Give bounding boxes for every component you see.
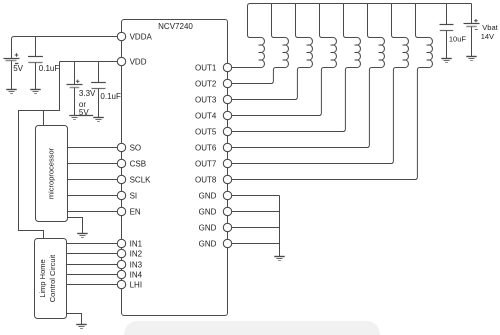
- svg-text:GND: GND: [199, 239, 217, 248]
- wire bus riser to coil L8: [416, 4, 428, 38]
- wire microprocessor to SI: [68, 195, 118, 197]
- relay coil L1: [260, 37, 265, 67]
- ground (limp home): [76, 325, 86, 329]
- svg-text:GND: GND: [199, 223, 217, 232]
- wire VDDA rail: [12, 37, 118, 59]
- capacitor C3 10uF: [440, 4, 454, 59]
- ground (below C2): [93, 118, 103, 122]
- svg-text:OUT7: OUT7: [195, 159, 217, 168]
- wire GND net vertical: [279, 196, 281, 257]
- wire bus riser to coil L7: [392, 4, 404, 38]
- pin OUT2: [195, 79, 232, 88]
- svg-text:IN4: IN4: [130, 270, 143, 279]
- ground (below 3.3V battery, wide top bar): [69, 116, 93, 120]
- wire microprocessor to CSB: [68, 163, 118, 165]
- wire bus riser to coil L3: [296, 4, 308, 38]
- svg-text:OUT3: OUT3: [195, 95, 217, 104]
- Limp Home Control Circuit box: [35, 239, 67, 319]
- svg-text:CSB: CSB: [130, 159, 146, 168]
- ground (GND net): [274, 257, 284, 261]
- svg-text:SI: SI: [130, 191, 138, 200]
- pin SCLK: [117, 175, 151, 184]
- svg-text:NCV7240: NCV7240: [158, 22, 193, 31]
- capacitor C1 0.1uF: [28, 37, 43, 90]
- wire Limp Home to IN3: [67, 264, 118, 266]
- wire GND pin 1 to net: [232, 195, 280, 197]
- relay coil L5: [356, 37, 361, 67]
- pin OUT1: [195, 63, 232, 72]
- svg-text:OUT4: OUT4: [195, 111, 217, 120]
- wire bus riser to coil L1: [248, 4, 260, 38]
- pin OUT8: [195, 175, 232, 184]
- svg-text:OUT8: OUT8: [195, 175, 217, 184]
- wire GND pin 4 to net: [232, 243, 280, 245]
- svg-text:10uF: 10uF: [449, 35, 467, 44]
- wire coil L3 to OUT3: [232, 68, 308, 100]
- ground (microprocessor): [77, 234, 87, 238]
- ground (below 10uF): [441, 59, 451, 63]
- capacitor C2 0.1uF: [91, 62, 106, 118]
- wire coil L8 to OUT8: [232, 68, 428, 180]
- wire microprocessor ground stub: [68, 218, 83, 234]
- pin OUT3: [195, 95, 232, 104]
- svg-text:OUT5: OUT5: [195, 127, 217, 136]
- svg-text:OUT6: OUT6: [195, 143, 217, 152]
- wire microprocessor to SCLK: [68, 179, 118, 181]
- wire coil L5 to OUT5: [232, 68, 356, 132]
- wire bus riser to coil L6: [368, 4, 380, 38]
- wire Limp Home to IN1: [67, 243, 118, 245]
- labels Vbat 14V: [481, 23, 499, 41]
- battery B2 3.3V/5V: [67, 62, 83, 116]
- relay coil L7: [404, 37, 409, 67]
- wire Limp Home to IN4: [67, 274, 118, 276]
- IC U1 NCV7240 box: [122, 20, 228, 316]
- relay coil L4: [332, 37, 337, 67]
- wire Vbat top bus: [250, 3, 472, 5]
- relay coil L3: [308, 37, 313, 67]
- ground (below 5V battery): [6, 90, 16, 94]
- svg-text:VDD: VDD: [130, 57, 147, 66]
- labels 3.3V or 5V: [79, 89, 96, 117]
- pin GND: [199, 191, 232, 200]
- wire branch to microprocessor: [43, 111, 45, 126]
- wire coil L4 to OUT4: [232, 68, 332, 116]
- wire bus riser to coil L5: [344, 4, 356, 38]
- svg-text:Control Circuit: Control Circuit: [48, 254, 57, 302]
- svg-text:OUT2: OUT2: [195, 79, 217, 88]
- wire microprocessor to EN: [68, 211, 118, 213]
- svg-text:14V: 14V: [481, 32, 494, 41]
- svg-text:5V: 5V: [13, 64, 23, 73]
- battery B1 5V: [4, 53, 20, 63]
- wire microprocessor to SO: [68, 147, 118, 149]
- wire coil L1 to OUT1: [232, 67, 260, 69]
- pin GND: [199, 207, 232, 216]
- wire Limp Home to IN2: [67, 253, 118, 255]
- wire coil L6 to OUT6: [232, 68, 380, 148]
- pin CSB: [117, 159, 146, 168]
- pin EN: [117, 207, 141, 216]
- pin VDD: [117, 57, 146, 66]
- wire coil L2 to OUT2: [232, 68, 284, 84]
- pin IN3: [117, 260, 142, 269]
- wire GND pin 2 to net: [232, 211, 280, 213]
- pin IN4: [117, 270, 142, 279]
- pin LHI: [117, 280, 142, 289]
- wire B1 to ground: [11, 61, 13, 90]
- pin GND: [199, 239, 232, 248]
- pin GND: [199, 223, 232, 232]
- pin VDDA: [117, 32, 152, 41]
- svg-text:OUT1: OUT1: [195, 63, 217, 72]
- svg-text:IN1: IN1: [130, 239, 143, 248]
- ground (below C1): [30, 90, 40, 94]
- pin SO: [117, 143, 141, 152]
- wire bus riser to coil L2: [272, 4, 284, 38]
- svg-text:Vbat: Vbat: [482, 23, 498, 32]
- svg-text:SCLK: SCLK: [130, 175, 152, 184]
- wire Limp Home to LHI: [67, 284, 118, 286]
- wire Limp Home ground stub: [67, 314, 82, 325]
- wire VDD to logic supply tree: [19, 62, 60, 239]
- wire coil L7 to OUT7: [232, 68, 404, 164]
- svg-text:IN3: IN3: [130, 260, 143, 269]
- pin SI: [117, 191, 137, 200]
- pin IN2: [117, 249, 142, 258]
- svg-text:5V: 5V: [79, 108, 89, 117]
- svg-text:microprocessor: microprocessor: [46, 147, 55, 199]
- pin OUT6: [195, 143, 232, 152]
- microprocessor box: [36, 126, 68, 222]
- svg-text:0.1uF: 0.1uF: [100, 92, 121, 101]
- svg-text:GND: GND: [199, 207, 217, 216]
- svg-text:Limp Home: Limp Home: [38, 259, 47, 297]
- wire bus riser to coil L4: [320, 4, 332, 38]
- svg-text:3.3V: 3.3V: [79, 89, 96, 98]
- decorative bottom overlay: [124, 321, 380, 335]
- label Limp Home Control Circuit (rotated): [38, 254, 57, 302]
- battery B3 Vbat: [464, 4, 480, 57]
- svg-text:SO: SO: [130, 143, 142, 152]
- svg-text:VDDA: VDDA: [130, 32, 153, 41]
- pin OUT7: [195, 159, 232, 168]
- pin IN1: [117, 239, 142, 248]
- svg-text:EN: EN: [130, 207, 141, 216]
- pin OUT5: [195, 127, 232, 136]
- svg-text:LHI: LHI: [130, 280, 142, 289]
- ground (below Vbat): [466, 57, 476, 61]
- pin OUT4: [195, 111, 232, 120]
- svg-text:0.1uF: 0.1uF: [39, 64, 60, 73]
- wire VDD rail: [60, 61, 118, 63]
- svg-text:IN2: IN2: [130, 249, 143, 258]
- relay coil L6: [380, 37, 385, 67]
- relay coil L8: [428, 37, 433, 67]
- wire GND pin 3 to net: [232, 227, 280, 229]
- relay coil L2: [284, 37, 289, 67]
- svg-text:GND: GND: [199, 191, 217, 200]
